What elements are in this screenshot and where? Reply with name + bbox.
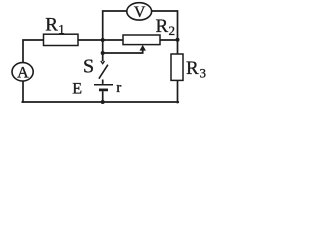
svg-text:r: r bbox=[116, 80, 121, 96]
label R2 bbox=[156, 16, 176, 38]
junction node: battery to bottom rail bbox=[101, 100, 105, 104]
wire: bottom-right corner up to R3 bottom bbox=[177, 80, 179, 102]
wire: R1 left lead to top-left corner down to ammeter bbox=[23, 40, 44, 63]
wire: R2 right lead to right rail junction bbox=[160, 39, 178, 41]
svg-text:R: R bbox=[186, 58, 199, 79]
wire: middle junction down to wiper junction bbox=[102, 40, 104, 53]
wiper arrow of R2 bbox=[140, 45, 146, 51]
svg-text:A: A bbox=[17, 65, 29, 82]
svg-text:3: 3 bbox=[200, 66, 207, 81]
svg-text:2: 2 bbox=[169, 23, 176, 38]
junction node: R1/R2/voltmeter/switch branch bbox=[101, 38, 105, 42]
label R1 bbox=[45, 15, 65, 37]
svg-text:E: E bbox=[72, 81, 82, 98]
svg-text:R: R bbox=[156, 16, 169, 37]
wire: bottom rail bbox=[22, 101, 178, 103]
junction node: R2 right to right rail bbox=[176, 38, 180, 42]
wire: R1 right lead to middle junction bbox=[78, 39, 103, 41]
wire: ammeter bottom to bottom-left corner bbox=[22, 81, 24, 102]
switch S bbox=[99, 53, 108, 79]
wire: voltmeter left lead and middle branch upper vertical bbox=[103, 11, 127, 40]
svg-text:V: V bbox=[134, 4, 146, 21]
rheostat R2 bbox=[123, 35, 160, 45]
svg-text:R: R bbox=[45, 15, 58, 36]
resistor R3 bbox=[171, 54, 183, 80]
battery E with internal resistance r bbox=[94, 80, 113, 102]
resistor R1 bbox=[44, 34, 79, 45]
svg-text:1: 1 bbox=[58, 21, 65, 36]
label R3 bbox=[186, 58, 206, 80]
junction node: wiper tap bbox=[101, 51, 105, 55]
wire: R2 left lead bbox=[103, 39, 123, 41]
wire: R3 top up to top-right corner and voltmeter right lead bbox=[152, 11, 178, 54]
svg-text:S: S bbox=[83, 56, 94, 78]
ammeter A bbox=[12, 63, 33, 82]
wire: rheostat wiper wire bbox=[103, 50, 143, 53]
voltmeter V bbox=[127, 3, 152, 22]
